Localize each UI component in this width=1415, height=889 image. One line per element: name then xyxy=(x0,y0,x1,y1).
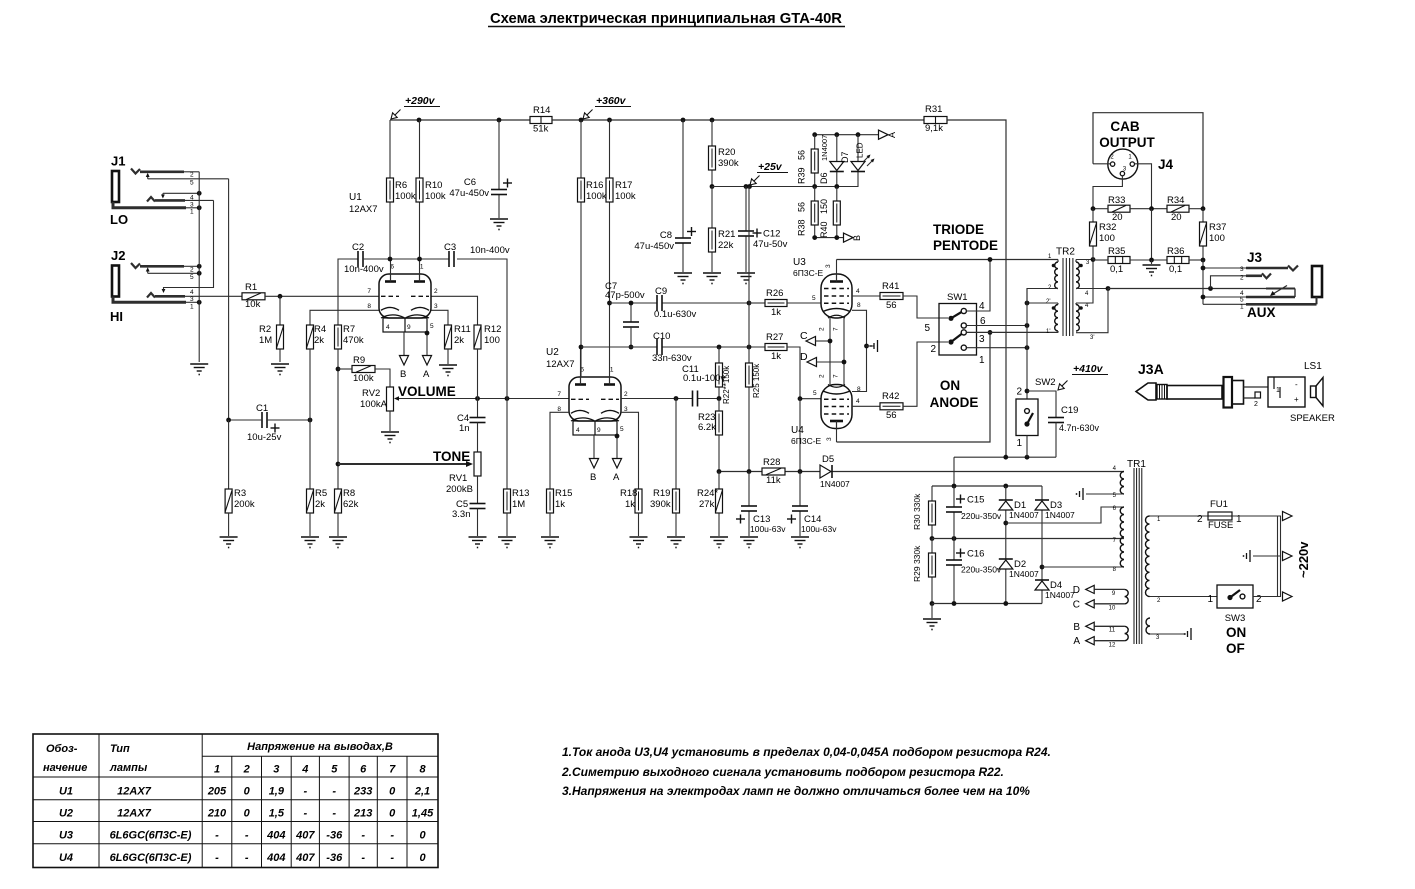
wire SW3 out xyxy=(1253,596,1281,598)
resistor R23 xyxy=(698,411,723,435)
title xyxy=(488,11,845,27)
svg-text:4: 4 xyxy=(979,301,985,312)
node C10 R25 xyxy=(747,345,752,350)
wire input bus A xyxy=(198,172,200,362)
svg-text:7: 7 xyxy=(389,764,396,776)
svg-text:1: 1 xyxy=(1207,594,1213,605)
wire R5 gnd xyxy=(309,513,311,536)
TR2 pin labels right xyxy=(1085,260,1094,341)
wire C9 line xyxy=(610,302,750,304)
resistor R20 xyxy=(709,146,739,170)
svg-text:407: 407 xyxy=(295,830,315,842)
triode U1 xyxy=(349,192,438,332)
svg-text:3.Напряжения на электродах лам: 3.Напряжения на электродах ламп не должн… xyxy=(562,784,1030,798)
label ON ANODE xyxy=(930,378,979,410)
SW2 pin1 xyxy=(1016,438,1022,449)
node U4 grid xyxy=(798,396,803,401)
svg-text:ANODE: ANODE xyxy=(930,395,979,410)
wire SW1-1 line xyxy=(966,347,1027,349)
svg-text:0: 0 xyxy=(244,786,251,798)
svg-text:0,1: 0,1 xyxy=(1110,264,1123,275)
svg-text:1M: 1M xyxy=(512,499,525,510)
fuse FU1 xyxy=(1208,499,1233,531)
jack plug J3A xyxy=(1136,377,1244,408)
svg-text:4: 4 xyxy=(856,288,860,295)
wire TR1 pin2 to SW3 xyxy=(1150,596,1218,598)
node C heater xyxy=(828,339,833,344)
wire input bus B xyxy=(148,179,229,420)
connector J2 xyxy=(111,248,186,302)
wire TR2 sec top xyxy=(1076,259,1093,261)
capacitor C5 xyxy=(452,499,486,520)
resistor R32 xyxy=(1090,222,1117,246)
node Aline D6 xyxy=(834,132,839,137)
svg-text:1,45: 1,45 xyxy=(412,808,434,820)
label SW3 xyxy=(1225,613,1246,624)
wire U1 pin3 to R11 xyxy=(431,310,448,325)
svg-text:U3: U3 xyxy=(59,830,73,842)
table text xyxy=(43,741,434,864)
capacitor C3 xyxy=(444,242,510,267)
svg-text:6L6GC(6П3С-Е): 6L6GC(6П3С-Е) xyxy=(110,830,192,842)
arrow C TR1 xyxy=(1073,600,1094,611)
svg-text:C: C xyxy=(1073,600,1080,611)
svg-text:47p-500v: 47p-500v xyxy=(605,290,645,301)
wire TR1 pin5 xyxy=(1086,493,1124,495)
svg-text:1: 1 xyxy=(190,304,194,311)
node rail C8 xyxy=(681,118,686,123)
svg-text:R38: R38 xyxy=(797,219,807,236)
svg-text:210: 210 xyxy=(207,808,227,820)
wire psu bottom line xyxy=(932,603,1042,605)
resistor R5 xyxy=(307,488,328,513)
resistor R15 xyxy=(547,488,573,513)
wire TR2 3' line xyxy=(1076,289,1108,333)
svg-text:C1: C1 xyxy=(256,403,268,414)
TR1 sec coil1 xyxy=(1120,472,1124,495)
wire R20 column xyxy=(711,120,713,187)
wire TR2 pin4 line xyxy=(1076,288,1108,290)
wire mid gnd xyxy=(1151,260,1153,264)
svg-text:CAB: CAB xyxy=(1110,119,1139,134)
J2 pin2 wire xyxy=(184,265,199,267)
TR1 core xyxy=(1134,468,1142,644)
resistor R10 xyxy=(416,178,446,202)
svg-text:9: 9 xyxy=(407,324,411,331)
wire R24 col xyxy=(718,472,720,537)
label ON OF xyxy=(1226,625,1246,656)
svg-text:U4: U4 xyxy=(791,425,804,436)
svg-text:390k: 390k xyxy=(718,158,739,169)
TR1 primary pin labels xyxy=(1156,517,1161,641)
resistor R29 xyxy=(912,545,936,582)
J3 pin numbers xyxy=(1240,266,1244,311)
label J4 xyxy=(1158,157,1174,172)
node R33 r xyxy=(1149,206,1154,211)
wire R6 column xyxy=(389,120,391,259)
svg-text:R22**150k: R22**150k xyxy=(722,365,731,404)
label J3 xyxy=(1247,250,1263,265)
node C7 bottom xyxy=(629,345,634,350)
svg-text:R35: R35 xyxy=(1108,246,1125,257)
TR2 secondary coil lower xyxy=(1076,303,1083,331)
node C9 R25 xyxy=(747,301,752,306)
pentode U3 xyxy=(793,257,852,318)
node rail R17 xyxy=(607,118,612,123)
svg-text:5: 5 xyxy=(812,295,816,302)
resistor R26 xyxy=(765,288,787,318)
svg-text:B: B xyxy=(400,369,406,380)
ground R19 xyxy=(667,537,685,548)
wire R22 column xyxy=(718,347,720,399)
wire U2 pin8 to R15 xyxy=(550,412,569,489)
diode D3 xyxy=(1035,500,1075,520)
resistor R38 xyxy=(797,201,819,236)
wire C1 right xyxy=(267,419,310,421)
XLR connector J4 xyxy=(1108,149,1138,179)
svg-text:1N4007: 1N4007 xyxy=(820,135,829,161)
wire plug to speaker xyxy=(1244,387,1269,408)
svg-text:10k: 10k xyxy=(245,299,261,310)
TR1 sec coil2 xyxy=(1120,507,1124,567)
svg-text:1N4007: 1N4007 xyxy=(1045,590,1075,600)
svg-text:R3: R3 xyxy=(234,488,246,499)
svg-text:SW3: SW3 xyxy=(1225,613,1246,624)
node psu bot l xyxy=(930,601,935,606)
diode D2 xyxy=(999,559,1039,579)
potentiometer RV2 xyxy=(360,387,399,411)
svg-text:47u-450v: 47u-450v xyxy=(449,188,489,199)
wire psu top line xyxy=(932,485,1042,487)
svg-text:1: 1 xyxy=(979,355,985,366)
svg-text:PENTODE: PENTODE xyxy=(933,238,998,253)
wire C4 top xyxy=(477,399,479,418)
node rail R10 xyxy=(417,118,422,123)
wire R21 column xyxy=(711,187,713,273)
J1 sleeve wire thin xyxy=(186,207,199,209)
svg-text:R26: R26 xyxy=(766,288,783,299)
label J3A xyxy=(1138,361,1164,377)
label CAB OUTPUT xyxy=(1099,119,1155,150)
svg-text:12AX7: 12AX7 xyxy=(117,808,152,820)
svg-text:D7: D7 xyxy=(840,151,850,163)
wire J3 pin2 xyxy=(1211,276,1247,289)
arrow mains 3 xyxy=(1283,592,1293,601)
svg-text:ON: ON xyxy=(1226,625,1246,640)
svg-text:AUX: AUX xyxy=(1247,305,1276,320)
svg-text:12AX7: 12AX7 xyxy=(349,204,378,215)
wire TR2 pin2 xyxy=(1027,289,1058,304)
svg-text:407: 407 xyxy=(295,852,315,864)
svg-text:1: 1 xyxy=(1240,304,1244,311)
svg-text:100k: 100k xyxy=(425,191,446,202)
connector J1 xyxy=(111,154,186,208)
wire R37 col xyxy=(1202,209,1204,260)
resistor R13 xyxy=(504,488,530,513)
svg-text:56: 56 xyxy=(886,300,897,311)
wire R13 gnd xyxy=(506,513,508,536)
svg-text:0: 0 xyxy=(244,808,251,820)
wire +290v rail xyxy=(390,119,530,121)
svg-text:2: 2 xyxy=(190,172,194,179)
svg-text:7: 7 xyxy=(367,288,371,295)
svg-text:0: 0 xyxy=(389,786,396,798)
svg-text:-: - xyxy=(303,808,307,820)
capacitor C1 xyxy=(247,403,282,443)
wire R12 down xyxy=(477,349,479,399)
svg-text:1N4007: 1N4007 xyxy=(1009,569,1039,579)
wire R8 gnd xyxy=(337,513,339,536)
J2 pin numbers xyxy=(190,267,194,311)
wire C19 branch xyxy=(1027,391,1056,418)
resistor R1 xyxy=(242,282,265,310)
TR1 sec coil4 xyxy=(1125,626,1129,640)
svg-text:1: 1 xyxy=(610,367,614,374)
node 410 b xyxy=(1025,455,1030,460)
junction J1-1 xyxy=(197,205,202,210)
wire cathode chassis stub xyxy=(867,345,875,347)
svg-text:C2: C2 xyxy=(352,242,364,253)
svg-text:1.Ток анода U3,U4 установить в: 1.Ток анода U3,U4 установить в пределах … xyxy=(562,745,1051,759)
wire TR1 pin3 xyxy=(1150,633,1186,635)
junction J2-5 xyxy=(197,271,202,276)
resistor R31 xyxy=(924,104,947,134)
speaker terminal box xyxy=(1268,377,1305,407)
svg-text:233: 233 xyxy=(353,786,372,798)
wire D TR1 xyxy=(1094,588,1124,590)
wire RV1 to C5 xyxy=(477,476,479,504)
svg-text:1,9: 1,9 xyxy=(269,786,285,798)
wire jack link bus xyxy=(164,200,214,289)
svg-text:5: 5 xyxy=(1240,297,1244,304)
svg-text:2k: 2k xyxy=(314,335,324,346)
wire A-line top xyxy=(815,134,879,136)
svg-text:OUTPUT: OUTPUT xyxy=(1099,135,1155,150)
wire R9 left xyxy=(338,368,352,370)
wire chassis mains xyxy=(1253,555,1281,557)
resistor R19 xyxy=(650,488,680,513)
node C10 R22 xyxy=(717,345,722,350)
node bias C14 xyxy=(798,469,803,474)
svg-text:100: 100 xyxy=(1099,233,1115,244)
svg-text:2: 2 xyxy=(1254,401,1258,408)
svg-text:62k: 62k xyxy=(343,499,359,510)
wire +410 node line xyxy=(954,456,1056,458)
TR2 secondary coil upper xyxy=(1076,260,1083,289)
svg-text:11: 11 xyxy=(1109,628,1116,634)
node psu d1 xyxy=(1003,484,1008,489)
chassis cathode xyxy=(870,340,877,352)
junction J1-4 xyxy=(197,191,202,196)
arrow B TR1 xyxy=(1073,622,1094,633)
label SW2 xyxy=(1035,377,1056,388)
svg-text:R40: R40 xyxy=(819,221,829,238)
node bias R25 xyxy=(747,469,752,474)
svg-text:SW2: SW2 xyxy=(1035,377,1056,388)
svg-text:A: A xyxy=(1073,636,1080,647)
svg-text:A: A xyxy=(613,472,620,483)
node +25v R38 xyxy=(812,184,817,189)
CAB OUTPUT box xyxy=(1093,113,1203,209)
svg-text:5: 5 xyxy=(190,180,194,187)
svg-text:-: - xyxy=(390,852,394,864)
svg-text:R4: R4 xyxy=(314,324,326,335)
svg-text:R2: R2 xyxy=(259,324,271,335)
label SPEAKER xyxy=(1290,413,1335,424)
svg-text:Схема электрическая принципиал: Схема электрическая принципиальная GTA-4… xyxy=(490,11,842,27)
svg-text:R18: R18 xyxy=(620,488,637,499)
svg-text:-: - xyxy=(1295,380,1298,389)
wire R4 to R5 xyxy=(309,349,311,489)
label TONE xyxy=(433,449,470,464)
svg-text:4: 4 xyxy=(386,324,390,331)
ground C14 xyxy=(791,537,809,548)
svg-text:3: 3 xyxy=(979,334,985,345)
svg-text:R10: R10 xyxy=(425,180,442,191)
resistor R12 xyxy=(474,324,501,349)
svg-text:-: - xyxy=(215,830,219,842)
wire R11 gnd xyxy=(447,349,449,364)
svg-text:3: 3 xyxy=(825,264,832,268)
svg-text:1M: 1M xyxy=(259,335,272,346)
svg-text:1: 1 xyxy=(420,264,424,271)
wire U1 plate leads xyxy=(391,259,420,274)
resistor R30 xyxy=(912,493,936,530)
svg-text:R39: R39 xyxy=(797,167,807,184)
svg-text:~220v: ~220v xyxy=(1296,541,1311,578)
TR2 primary coil upper xyxy=(1052,260,1058,289)
svg-text:56: 56 xyxy=(797,202,807,212)
connector J3 xyxy=(1246,266,1322,305)
resistor R42 xyxy=(880,391,903,421)
svg-text:C16: C16 xyxy=(967,549,984,560)
ground C8 xyxy=(674,273,692,284)
node U4 line xyxy=(988,330,993,335)
ground RV2 xyxy=(381,432,399,443)
svg-text:B: B xyxy=(852,235,862,241)
label 220v xyxy=(1296,541,1311,578)
svg-text:начение: начение xyxy=(43,762,87,774)
wire VOLUME line xyxy=(399,398,569,400)
wire R13 col xyxy=(506,399,508,490)
pentode U4 xyxy=(791,385,852,447)
svg-text:27k: 27k xyxy=(699,499,715,510)
wire R15 gnd xyxy=(549,513,551,536)
svg-text:1': 1' xyxy=(1046,329,1050,335)
capacitor C14 xyxy=(787,506,837,534)
wire XLR pin3 xyxy=(1093,176,1122,209)
svg-text:FUSE: FUSE xyxy=(1208,520,1233,531)
svg-text:R37: R37 xyxy=(1209,222,1226,233)
wire XLR pin2 xyxy=(1093,163,1110,165)
node psu mid l xyxy=(930,536,935,541)
capacitor C15 xyxy=(946,495,1002,522)
svg-text:3: 3 xyxy=(434,303,438,310)
svg-text:404: 404 xyxy=(266,852,285,864)
J1 pin5 wire xyxy=(148,178,229,180)
svg-text:2: 2 xyxy=(243,764,250,776)
svg-text:R29 330k: R29 330k xyxy=(912,545,922,582)
svg-text:R11: R11 xyxy=(454,324,471,335)
svg-text:J1: J1 xyxy=(111,154,125,169)
wire C12 column xyxy=(745,187,747,273)
junction J2-1 xyxy=(197,300,202,305)
svg-text:12AX7: 12AX7 xyxy=(117,786,152,798)
resistor R8 xyxy=(335,488,359,513)
svg-text:лампы: лампы xyxy=(109,762,148,774)
svg-text:J3A: J3A xyxy=(1138,361,1164,377)
wire R10 column xyxy=(419,120,421,259)
capacitor C2 xyxy=(344,242,384,275)
svg-text:3: 3 xyxy=(190,296,194,303)
ground C5 xyxy=(469,537,487,548)
label TRIODE PENTODE xyxy=(933,222,998,253)
node psu mid c xyxy=(952,536,957,541)
svg-text:B: B xyxy=(1073,622,1080,633)
svg-text:10u-25v: 10u-25v xyxy=(247,432,282,443)
ground R24 xyxy=(710,537,728,548)
triode U2 xyxy=(546,347,628,435)
wire R39 column xyxy=(814,135,816,187)
SW3 pin numbers xyxy=(1207,594,1262,605)
svg-text:10: 10 xyxy=(1109,606,1116,612)
arrow mains 2 xyxy=(1283,551,1293,560)
node Aline R39 xyxy=(812,132,817,137)
TR1 primary coil xyxy=(1145,516,1149,597)
svg-text:2: 2 xyxy=(624,391,628,398)
svg-text:2: 2 xyxy=(930,344,936,355)
capacitor C8 xyxy=(634,227,696,252)
svg-text:+290v: +290v xyxy=(405,95,436,107)
wire R29 col xyxy=(931,539,933,604)
diode D6 xyxy=(819,135,844,184)
svg-text:Напряжение на выводах,В: Напряжение на выводах,В xyxy=(247,741,393,753)
FU1 pin numbers xyxy=(1197,514,1242,525)
svg-text:R9: R9 xyxy=(353,355,365,366)
node bias R23 xyxy=(717,469,722,474)
svg-text:5: 5 xyxy=(331,764,338,776)
svg-text:2': 2' xyxy=(1046,299,1050,305)
node TR2 ct2 xyxy=(1025,323,1030,328)
resistor R16 xyxy=(578,178,607,202)
svg-text:R32: R32 xyxy=(1099,222,1116,233)
wire U1 pin2 to R12 xyxy=(431,296,478,325)
wire SW1-4 up xyxy=(966,260,990,312)
wire D6 column xyxy=(836,135,838,187)
resistor R39 xyxy=(797,149,819,184)
wire R38 column xyxy=(814,187,816,238)
wire R18 gnd xyxy=(638,513,640,536)
svg-text:SW1: SW1 xyxy=(947,292,968,303)
svg-text:3: 3 xyxy=(1240,266,1244,273)
wire R33-R34 xyxy=(1130,208,1167,210)
ground R13 xyxy=(498,537,516,548)
svg-text:51k: 51k xyxy=(533,124,549,135)
switch SW2 xyxy=(1016,399,1038,436)
wire U3 plate xyxy=(836,260,838,275)
svg-text:R5: R5 xyxy=(315,488,327,499)
svg-text:1k: 1k xyxy=(625,499,635,510)
svg-text:R6: R6 xyxy=(395,180,407,191)
capacitor C4 xyxy=(457,413,486,434)
svg-text:C6: C6 xyxy=(464,177,476,188)
resistor R6 xyxy=(387,178,416,202)
wire R33 left xyxy=(1093,208,1108,210)
wire C TR1 xyxy=(1094,603,1124,605)
svg-text:R12: R12 xyxy=(484,324,501,335)
J1 pin4 wire xyxy=(163,193,199,195)
wire R1 to U1 pin7 xyxy=(265,295,379,297)
